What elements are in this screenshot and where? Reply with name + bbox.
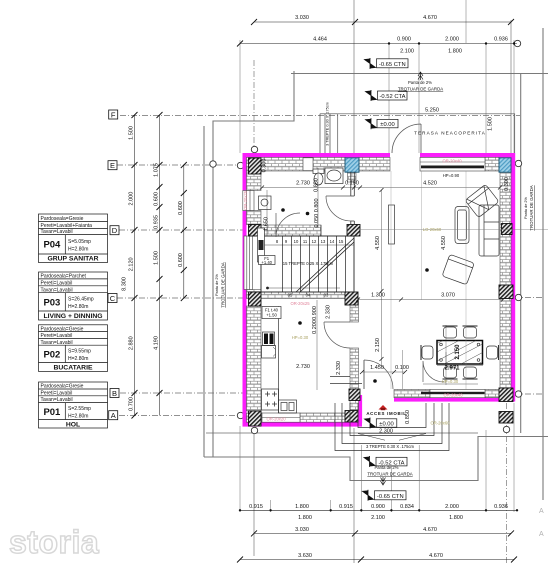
right wall magenta bbox=[511, 153, 515, 402]
top wall magenta left segment bbox=[243, 153, 391, 157]
column left row C bbox=[249, 292, 262, 306]
node below porch column bbox=[503, 426, 509, 432]
dim line 2.300 with arrows bbox=[358, 433, 426, 435]
kitchen south opening w lintel bbox=[262, 413, 300, 422]
bathroom east partition upper bbox=[351, 172, 355, 196]
lintel dark bar bbox=[421, 166, 484, 169]
svg-text:4.520: 4.520 bbox=[423, 181, 437, 187]
oven with black panes bbox=[263, 332, 275, 346]
dot bathroom hall bbox=[281, 208, 285, 212]
column NW corner bbox=[249, 158, 262, 174]
grid A bbox=[109, 411, 118, 420]
svg-text:4.464: 4.464 bbox=[313, 37, 327, 43]
stairs bottom wall brick bbox=[247, 292, 346, 299]
extension line x=240 bbox=[239, 40, 241, 153]
svg-text:P01: P01 bbox=[43, 407, 61, 418]
terrace level flag bbox=[366, 118, 377, 129]
svg-text:TROTUAR DE GARDA: TROTUAR DE GARDA bbox=[398, 87, 443, 92]
svg-text:ACCES IMOBIL: ACCES IMOBIL bbox=[366, 411, 406, 416]
step rect outer bbox=[335, 403, 449, 451]
svg-text:2.120: 2.120 bbox=[129, 257, 135, 271]
tall cabinet bbox=[258, 228, 265, 262]
entry window dark sill bar bbox=[421, 392, 485, 394]
svg-text:E: E bbox=[110, 161, 115, 170]
bathroom east partition lower bbox=[351, 221, 355, 225]
svg-text:B: B bbox=[112, 389, 117, 398]
table P02 bbox=[39, 325, 108, 372]
entry top mini dims bbox=[362, 371, 405, 373]
CTA top box bbox=[378, 91, 408, 100]
column right row D bbox=[502, 224, 513, 235]
left wall brick segment 3 bbox=[247, 290, 262, 293]
grid C bbox=[108, 294, 117, 303]
partition cap lines bbox=[351, 196, 355, 221]
svg-text:1.800: 1.800 bbox=[298, 515, 312, 521]
kitchen vertical chain bbox=[316, 300, 318, 390]
grid D bbox=[110, 226, 119, 235]
right wall brick bbox=[500, 172, 511, 388]
svg-text:2.730: 2.730 bbox=[296, 364, 310, 370]
unit below oven bbox=[262, 346, 276, 359]
CTN bottom flag bbox=[363, 490, 374, 501]
hob unit bbox=[262, 389, 279, 410]
CTA top flag bbox=[366, 90, 377, 101]
node axis2/top bbox=[251, 146, 257, 152]
svg-text:2.100: 2.100 bbox=[371, 515, 385, 521]
svg-text:0.600: 0.600 bbox=[178, 201, 184, 215]
svg-text:2.100: 2.100 bbox=[400, 49, 414, 55]
svg-text:15 TREPTE 0.25 X .175cm: 15 TREPTE 0.25 X .175cm bbox=[283, 261, 334, 266]
node row B right bbox=[515, 391, 521, 397]
stub below blue column bbox=[348, 171, 357, 182]
column stairs top right bbox=[347, 225, 360, 237]
ticks bbox=[260, 186, 502, 190]
kitchen east wall brick lower bbox=[350, 348, 359, 410]
step rect inner bbox=[358, 403, 426, 428]
entry level box bbox=[376, 419, 397, 427]
grid row D dashed bbox=[119, 229, 245, 231]
svg-text:Tavan=Lavabil: Tavan=Lavabil bbox=[41, 397, 73, 403]
svg-text:1.500: 1.500 bbox=[129, 126, 135, 140]
svg-text:A: A bbox=[111, 411, 116, 420]
top dim line 1 bbox=[254, 21, 511, 23]
svg-text:0.300: 0.300 bbox=[262, 159, 268, 173]
svg-text:OR-20x20: OR-20x20 bbox=[266, 417, 286, 422]
svg-text:P03: P03 bbox=[43, 298, 60, 309]
svg-text:0.936: 0.936 bbox=[494, 37, 508, 43]
svg-text:2.880: 2.880 bbox=[129, 336, 135, 350]
CTN top flag bbox=[365, 58, 376, 69]
sidewalk outer edge top-left step bbox=[213, 71, 294, 457]
sidewalk bottom edge with step around entry bbox=[204, 437, 548, 481]
chair bottom 1 bbox=[443, 367, 458, 379]
axis column 1 x=254 bbox=[253, 60, 255, 150]
svg-text:H=2.80m: H=2.80m bbox=[68, 356, 88, 362]
dim line 1.300/3.070 bbox=[358, 299, 503, 301]
svg-text:0.834: 0.834 bbox=[400, 504, 414, 510]
left window 1 bbox=[243, 191, 254, 211]
grid row B dashed bbox=[120, 392, 245, 394]
svg-text:HOL: HOL bbox=[66, 422, 80, 429]
svg-text:±0.00: ±0.00 bbox=[380, 122, 394, 128]
dining door arc bbox=[423, 361, 444, 382]
svg-text:Tavan=Lavabil: Tavan=Lavabil bbox=[41, 229, 73, 235]
ticks left chain3 bbox=[181, 162, 187, 301]
table dim line bbox=[437, 365, 483, 367]
column kitchen SE corner bbox=[345, 411, 358, 423]
svg-text:S=26.45mp: S=26.45mp bbox=[68, 297, 94, 303]
svg-text:0.900: 0.900 bbox=[312, 306, 318, 320]
svg-text:4.670: 4.670 bbox=[429, 553, 443, 559]
column stairs bottom right bbox=[345, 292, 358, 305]
svg-text:4.670: 4.670 bbox=[423, 15, 437, 21]
CTA bottom box bbox=[376, 457, 407, 466]
svg-text:Pardoseala=Gresie: Pardoseala=Gresie bbox=[41, 326, 84, 332]
svg-text:11: 11 bbox=[303, 239, 308, 244]
node on top wall bbox=[273, 162, 279, 168]
svg-text:D: D bbox=[112, 226, 118, 235]
svg-text:2.300: 2.300 bbox=[379, 429, 393, 435]
dot living bbox=[425, 268, 429, 272]
grid B bbox=[110, 389, 119, 398]
kitchen east magenta bbox=[359, 395, 363, 423]
grid row C right extension bbox=[514, 297, 543, 299]
node below SW corner bbox=[251, 427, 257, 433]
svg-text:1.800: 1.800 bbox=[448, 49, 462, 55]
svg-text:Panta de 2%: Panta de 2% bbox=[215, 274, 219, 296]
ticks bottom line3 bbox=[237, 557, 517, 563]
svg-text:3 TREPTE 0.30 X .175cm: 3 TREPTE 0.30 X .175cm bbox=[326, 102, 330, 146]
svg-text:0.850: 0.850 bbox=[313, 178, 319, 192]
chair top 1 bbox=[443, 326, 458, 338]
step rect 2 bbox=[350, 403, 434, 436]
parapet line bbox=[423, 383, 478, 385]
svg-text:P02: P02 bbox=[43, 349, 60, 360]
stair side walls bbox=[261, 236, 354, 292]
svg-text:BUCATARIE: BUCATARIE bbox=[53, 365, 92, 372]
terrace side steps bbox=[320, 114, 338, 153]
extension x=486 top bbox=[485, 43, 487, 158]
svg-text:2.150: 2.150 bbox=[375, 338, 381, 352]
washing machine bbox=[259, 196, 272, 210]
svg-text:HP=0.30: HP=0.30 bbox=[442, 379, 459, 384]
grid F bbox=[109, 110, 118, 119]
sidewalk top edge bbox=[291, 73, 548, 75]
axis line under plan with circles bbox=[206, 432, 478, 434]
armchair bottom bbox=[442, 254, 474, 285]
svg-text:0.900: 0.900 bbox=[397, 37, 411, 43]
blue column top axis2 bbox=[345, 158, 359, 172]
svg-text:03: 03 bbox=[324, 293, 329, 298]
table P03 bbox=[39, 272, 108, 320]
grid row B right extension bbox=[514, 393, 543, 395]
top lintel window OR-20x40 bbox=[420, 157, 485, 171]
svg-text:3.070: 3.070 bbox=[441, 293, 455, 299]
armchair angled / plant bbox=[465, 184, 499, 217]
chair top 2 bbox=[463, 326, 478, 338]
svg-text:2.150: 2.150 bbox=[455, 344, 461, 360]
top panta arrow bbox=[418, 72, 423, 80]
node top right of dims bbox=[514, 40, 520, 46]
svg-text:Pereti=Lavabil: Pereti=Lavabil bbox=[41, 390, 73, 396]
bottom extension lines to dim row bbox=[270, 500, 272, 512]
ticks bottom line2 bbox=[251, 530, 514, 536]
porch column SE detached bbox=[499, 412, 513, 424]
svg-text:-0.65 CTN: -0.65 CTN bbox=[379, 62, 406, 68]
svg-text:Pardoseala=Gresie: Pardoseala=Gresie bbox=[41, 384, 84, 390]
svg-text:0.936: 0.936 bbox=[494, 504, 508, 510]
vertical chain x381 bbox=[381, 190, 383, 365]
svg-text:HP=0.90: HP=0.90 bbox=[443, 173, 460, 178]
svg-text:TROTUAR DE GARDA: TROTUAR DE GARDA bbox=[367, 472, 412, 477]
svg-text:8.300: 8.300 bbox=[122, 277, 128, 291]
svg-text:1.650: 1.650 bbox=[264, 217, 270, 231]
left dim chain 3 bbox=[183, 165, 185, 298]
bottom-left wall brick east bbox=[300, 413, 345, 422]
tread number line top bbox=[261, 244, 354, 246]
svg-text:2.000: 2.000 bbox=[445, 37, 459, 43]
top dim line 2 bbox=[240, 43, 517, 45]
faint window extension verticals bbox=[391, 171, 466, 390]
left window 2 (stair window) bbox=[244, 236, 253, 290]
bottom dim line 2 bbox=[254, 532, 511, 534]
sidewalk right outer edge bbox=[520, 74, 522, 434]
bottom dim line 3 bbox=[240, 559, 514, 561]
svg-text:OR-20x60: OR-20x60 bbox=[430, 421, 450, 426]
walk line with arrow bbox=[267, 287, 340, 289]
svg-text:0.050 0.800: 0.050 0.800 bbox=[314, 198, 320, 227]
svg-text:Panta de 2%: Panta de 2% bbox=[375, 465, 399, 470]
svg-text:05: 05 bbox=[288, 293, 293, 298]
svg-text:TROTUAR DE GARDA: TROTUAR DE GARDA bbox=[529, 185, 534, 230]
svg-text:Pardoseala=Gresie: Pardoseala=Gresie bbox=[41, 216, 84, 222]
svg-text:0.700: 0.700 bbox=[129, 397, 135, 411]
node row E on boundary bbox=[210, 161, 216, 167]
axis column 3 x=511 bbox=[510, 20, 512, 153]
column right row C bbox=[499, 285, 513, 299]
dot kitchen bbox=[298, 321, 302, 325]
row D extension through living bbox=[358, 229, 548, 231]
svg-text:4.550: 4.550 bbox=[441, 236, 447, 250]
ticks top line2 bbox=[237, 41, 243, 47]
grid row A dashed bbox=[119, 415, 245, 417]
dining table bbox=[437, 341, 483, 365]
kitchen east wall brick upper bbox=[350, 299, 359, 323]
CTN bottom box bbox=[375, 491, 407, 500]
kitchen-hall door arc bbox=[324, 322, 350, 348]
svg-text:0.915: 0.915 bbox=[339, 504, 353, 510]
svg-text:OR-20x40: OR-20x40 bbox=[442, 159, 462, 164]
dim tick slashes bbox=[132, 19, 519, 563]
svg-text:OR-20x25: OR-20x25 bbox=[243, 190, 248, 210]
svg-text:0.600: 0.600 bbox=[154, 192, 160, 206]
svg-text:A: A bbox=[539, 508, 544, 515]
svg-text:Panta de 2%: Panta de 2% bbox=[408, 80, 432, 85]
terrace outline bbox=[338, 114, 515, 153]
entry hall top face line bbox=[330, 376, 350, 378]
svg-text:0.300: 0.300 bbox=[504, 177, 510, 191]
entry door arc bbox=[364, 360, 393, 389]
svg-text:1.500: 1.500 bbox=[154, 251, 160, 265]
kitchen door arc bbox=[276, 213, 300, 237]
svg-text:0.600: 0.600 bbox=[178, 253, 184, 267]
ticks left chain1 bbox=[132, 112, 138, 419]
svg-text:H=2.80m: H=2.80m bbox=[68, 304, 88, 310]
svg-text:15: 15 bbox=[339, 239, 344, 244]
grid row F dashed bbox=[120, 115, 520, 117]
CTA bottom flag bbox=[364, 456, 375, 467]
svg-text:0.900: 0.900 bbox=[371, 504, 385, 510]
node row A left bbox=[237, 412, 243, 418]
kitchen tag box F1 bbox=[262, 307, 281, 319]
svg-text:14: 14 bbox=[330, 239, 335, 244]
node row E right bbox=[515, 160, 521, 166]
left dim chain 1 bbox=[134, 115, 136, 416]
treads bbox=[283, 236, 346, 292]
svg-text:+1.40: +1.40 bbox=[261, 260, 272, 265]
top wall brick mid part bbox=[359, 157, 390, 171]
svg-text:Panta de 2%: Panta de 2% bbox=[524, 197, 528, 219]
svg-text:1.800: 1.800 bbox=[449, 515, 463, 521]
axis column 2 x=354 bbox=[353, 0, 355, 153]
svg-text:2.730: 2.730 bbox=[296, 181, 310, 187]
extension x=419 top bbox=[418, 43, 420, 153]
svg-text:S=2.55mp: S=2.55mp bbox=[68, 406, 91, 412]
left wall magenta bbox=[243, 153, 247, 427]
svg-text:Pereti=Lavabil+Faianta: Pereti=Lavabil+Faianta bbox=[41, 223, 93, 229]
svg-text:Pereti=Lavabil: Pereti=Lavabil bbox=[41, 333, 73, 339]
svg-text:10: 10 bbox=[294, 239, 299, 244]
top wall small slot bbox=[303, 158, 313, 171]
chain under top wall bbox=[262, 187, 500, 189]
blue column top NE bbox=[499, 158, 511, 172]
bathroom door jamb lines bbox=[321, 225, 347, 236]
svg-text:0.200: 0.200 bbox=[312, 320, 318, 334]
sink bowl bbox=[327, 170, 341, 181]
entry south wall brick west bbox=[394, 390, 430, 398]
svg-text:1.800: 1.800 bbox=[295, 504, 309, 510]
column entry west bbox=[349, 389, 360, 401]
svg-text:F: F bbox=[111, 111, 116, 120]
svg-text:0.150: 0.150 bbox=[345, 181, 359, 187]
svg-text:2.330: 2.330 bbox=[336, 361, 342, 375]
svg-text:0.915: 0.915 bbox=[249, 504, 263, 510]
chair right bbox=[487, 345, 499, 360]
svg-text:4.190: 4.190 bbox=[154, 336, 160, 350]
toilet bbox=[313, 169, 324, 174]
svg-text:H=2.80m: H=2.80m bbox=[68, 414, 88, 420]
stair break diagonal bbox=[296, 238, 354, 292]
top wall brick east part bbox=[485, 157, 499, 171]
left dim chain 2 bbox=[159, 115, 161, 416]
bathroom/stairs top wall brick bbox=[261, 225, 321, 236]
extension x=466 top short bbox=[465, 0, 467, 43]
grid E bbox=[108, 161, 117, 170]
svg-text:3.630: 3.630 bbox=[298, 553, 312, 559]
svg-text:2.000: 2.000 bbox=[445, 504, 459, 510]
svg-text:S=9.55mp: S=9.55mp bbox=[68, 349, 91, 355]
left wall brick segment 4 bbox=[247, 306, 262, 411]
bathroom door arc bbox=[326, 196, 351, 221]
ticks left chain2 bbox=[157, 112, 163, 396]
svg-text:-0.65 CTN: -0.65 CTN bbox=[377, 494, 404, 500]
svg-text:S=5.05mp: S=5.05mp bbox=[68, 239, 91, 245]
svg-text:C: C bbox=[110, 294, 116, 303]
svg-text:TROTUAR DE GARDA: TROTUAR DE GARDA bbox=[221, 262, 226, 307]
terrace door arc bbox=[392, 124, 421, 153]
entry south wall magenta bbox=[394, 398, 515, 402]
top wall magenta right segment bbox=[420, 153, 515, 157]
svg-text:12: 12 bbox=[312, 239, 317, 244]
node row C right bbox=[515, 294, 521, 300]
entry level flag bbox=[365, 418, 376, 429]
table P01 bbox=[39, 382, 108, 428]
svg-text:OR-20x25: OR-20x25 bbox=[290, 301, 310, 306]
svg-text:storia: storia bbox=[9, 524, 99, 560]
bottom dim line 1 bbox=[240, 509, 517, 511]
svg-text:TERASA NEACOPERITA: TERASA NEACOPERITA bbox=[414, 131, 486, 136]
vertical chain x318 bathroom bbox=[317, 168, 319, 228]
extension x=389 top bbox=[388, 43, 390, 153]
top wall brick west part bbox=[247, 157, 346, 171]
svg-text:3 TREPTE 0.30 X .175cm: 3 TREPTE 0.30 X .175cm bbox=[366, 444, 415, 449]
svg-text:±0.00: ±0.00 bbox=[379, 422, 393, 428]
svg-text:0.935: 0.935 bbox=[154, 215, 160, 229]
counter edge bbox=[278, 306, 280, 413]
svg-text:LO-20x60: LO-20x60 bbox=[423, 227, 442, 232]
chair bottom 2 bbox=[463, 367, 478, 379]
ticks top line1 bbox=[251, 19, 514, 25]
left wall brick segment 2 bbox=[247, 211, 262, 225]
svg-text:HP=0.30: HP=0.30 bbox=[292, 335, 309, 340]
entry door leaf bbox=[363, 360, 365, 389]
CTN top box bbox=[377, 59, 409, 68]
svg-text:P04: P04 bbox=[43, 240, 61, 251]
red logo bbox=[379, 405, 388, 410]
ticks bottom line1 bbox=[239, 509, 518, 511]
right curb line bbox=[542, 28, 544, 500]
dot entry bbox=[373, 379, 377, 383]
extension x=514 bbox=[513, 40, 515, 153]
svg-text:0.850: 0.850 bbox=[405, 410, 411, 424]
bottom-left wall brick west bbox=[247, 413, 263, 422]
svg-text:OR-20x40: OR-20x40 bbox=[443, 393, 463, 398]
svg-text:1.500: 1.500 bbox=[488, 117, 494, 131]
entry south wall brick east bbox=[485, 390, 499, 398]
TV cabinet bbox=[389, 205, 395, 244]
dining vertical extension lines bbox=[403, 350, 447, 389]
coffee table bbox=[455, 207, 469, 244]
burners bbox=[265, 392, 277, 407]
left wall brick segment 1 bbox=[247, 171, 262, 191]
svg-text:GRUP SANITAR: GRUP SANITAR bbox=[47, 256, 98, 263]
grid row E dashed bbox=[117, 164, 245, 166]
bathroom door gap edges bbox=[321, 225, 347, 236]
svg-text:3.030: 3.030 bbox=[295, 527, 309, 533]
svg-text:2.000: 2.000 bbox=[129, 192, 135, 206]
svg-text:4.670: 4.670 bbox=[423, 527, 437, 533]
sofa bbox=[479, 205, 499, 256]
table P04 bbox=[39, 214, 108, 263]
chair left bbox=[421, 345, 433, 360]
step rect 3 bbox=[342, 403, 442, 444]
grid row C dashed bbox=[117, 297, 245, 299]
svg-text:1.450: 1.450 bbox=[370, 365, 384, 371]
column left row D bbox=[249, 225, 262, 237]
svg-text:A: A bbox=[539, 531, 544, 538]
svg-text:0.100: 0.100 bbox=[395, 365, 409, 371]
svg-text:04: 04 bbox=[306, 293, 311, 298]
